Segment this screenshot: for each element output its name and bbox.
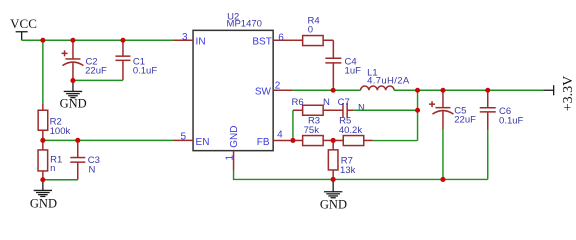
svg-text:22uF: 22uF: [454, 115, 476, 126]
resistor R6: [293, 105, 343, 115]
node junction VCC/R2: [40, 38, 45, 43]
svg-text:22uF: 22uF: [85, 65, 107, 76]
resistor R2: [38, 103, 48, 140]
svg-text:0.1uF: 0.1uF: [499, 115, 523, 126]
power symbol +3.3V: [544, 85, 554, 95]
svg-text:FB: FB: [257, 137, 270, 148]
node junction R3/R5/R7: [331, 138, 336, 143]
node junction VCC/C2: [70, 38, 75, 43]
svg-text:SW: SW: [255, 86, 272, 97]
svg-text:1uF: 1uF: [345, 65, 362, 76]
node junction C5 bottom: [440, 177, 445, 182]
svg-text:6: 6: [278, 32, 284, 43]
svg-text:4.7uH/2A: 4.7uH/2A: [367, 76, 410, 87]
node junction C7/feedback: [415, 108, 420, 113]
svg-text:N: N: [323, 97, 330, 108]
wire C4 to SW: [332, 86, 334, 90]
capacitor C3: [70, 140, 85, 179]
svg-text:R6: R6: [292, 97, 304, 108]
wire SW rail: [293, 89, 361, 91]
ground symbol under R1: [34, 180, 52, 197]
node junction FB pin: [290, 138, 295, 143]
svg-text:2: 2: [275, 81, 281, 92]
node junction C4/SW: [331, 88, 336, 93]
resistor R3: [293, 136, 333, 146]
wire R2 branch vertical: [42, 40, 44, 103]
resistor R5: [333, 136, 373, 146]
svg-text:13k: 13k: [340, 165, 356, 176]
node junction C6 top: [485, 88, 490, 93]
wire output rail: [394, 89, 544, 91]
wire feedback vertical: [417, 90, 419, 140]
capacitor C4: [325, 40, 341, 86]
svg-text:GND: GND: [229, 126, 240, 148]
wire FB to R6 vertical: [292, 110, 294, 140]
svg-text:N: N: [88, 164, 95, 175]
pin 3 IN lead: [173, 39, 193, 41]
capacitor C7: [343, 103, 353, 118]
svg-text:3: 3: [182, 32, 188, 43]
IC U2 MP1470 body: [193, 30, 273, 150]
svg-text:GND: GND: [30, 197, 57, 211]
pin 4 FB lead: [273, 139, 293, 141]
svg-text:N: N: [358, 102, 365, 113]
svg-text:VCC: VCC: [10, 16, 37, 31]
pin 5 EN lead: [173, 139, 193, 141]
svg-text:+3.3V: +3.3V: [561, 76, 576, 112]
ground symbol under R7: [324, 179, 342, 197]
svg-text:GND: GND: [60, 96, 87, 110]
wire C3 bottom to R1 bottom: [43, 179, 78, 181]
capacitor C6: [480, 90, 496, 130]
svg-text:0: 0: [308, 24, 313, 35]
svg-text:5: 5: [180, 131, 186, 142]
node junction R7/GND rail: [331, 177, 336, 182]
svg-text:IN: IN: [196, 36, 206, 47]
power symbol VCC: [16, 32, 28, 41]
wire EN row: [43, 139, 173, 141]
wire ground rail to C6: [333, 178, 488, 180]
wire pin1 to ground rail: [234, 171, 334, 180]
capacitor C2 polarized: [62, 40, 84, 80]
svg-text:C7: C7: [338, 97, 350, 108]
wire R5 to feedback tap: [373, 140, 418, 142]
svg-text:100k: 100k: [50, 126, 71, 137]
wire C5 bottom: [442, 130, 444, 180]
resistor R7: [328, 140, 338, 179]
svg-text:75k: 75k: [304, 125, 320, 136]
node junction R2/R1/EN: [40, 138, 45, 143]
inductor L1: [361, 86, 395, 90]
node junction VCC/C1: [120, 38, 125, 43]
svg-text:40.2k: 40.2k: [339, 125, 362, 136]
node junction feedback tap: [415, 88, 420, 93]
pin 6 BST lead: [273, 39, 293, 41]
resistor R4: [293, 36, 333, 46]
wire C7 to feedback tap: [353, 109, 418, 111]
svg-text:EN: EN: [196, 137, 210, 148]
node junction C5 top: [440, 88, 445, 93]
svg-text:BST: BST: [252, 36, 271, 47]
svg-text:1: 1: [224, 155, 235, 161]
node junction C3/EN: [75, 138, 80, 143]
resistor R1: [38, 140, 48, 179]
capacitor C1: [115, 40, 130, 80]
wire C6 bottom: [487, 130, 489, 179]
wire C1 bottom to C2 bottom: [73, 79, 123, 81]
capacitor C5 polarized: [429, 90, 453, 129]
pin 2 SW lead: [273, 89, 293, 91]
svg-text:0.1uF: 0.1uF: [133, 65, 157, 76]
node junction C2/GND: [70, 78, 75, 83]
svg-text:GND: GND: [320, 197, 347, 211]
svg-text:MP1470: MP1470: [227, 19, 262, 30]
wire VCC rail to IN pin: [22, 39, 173, 41]
ground symbol under C2: [64, 81, 82, 98]
svg-text:4: 4: [277, 129, 283, 140]
svg-text:n: n: [50, 163, 55, 174]
node junction R1/GND: [40, 177, 45, 182]
pin 1 GND lead: [233, 151, 235, 171]
